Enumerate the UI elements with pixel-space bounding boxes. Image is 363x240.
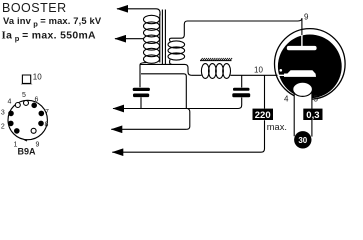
- pin 5 (open): [24, 100, 29, 105]
- tube V1 cathode (white mesa shape): [284, 70, 316, 77]
- svg-text:7: 7: [45, 109, 49, 116]
- svg-text:4: 4: [284, 95, 289, 104]
- choke L2 core (hatched bar): [200, 58, 232, 61]
- pin 7 (filled): [39, 111, 45, 117]
- wire: ground rail y=108.5, arrow left: [113, 98, 242, 109]
- wire: jog from rail down to lower rail: [187, 109, 190, 130]
- wire: secondary top to tube anode pin 9: [172, 18, 302, 38]
- capacitor C2: [232, 88, 250, 98]
- socket index tick: [24, 140, 27, 142]
- svg-text:2: 2: [1, 124, 5, 131]
- socket B9A outline: [8, 100, 47, 139]
- svg-text:6: 6: [35, 97, 39, 104]
- wire: choke right lead to tube pin 10: [230, 74, 277, 76]
- wire: bus y=73.8: [141, 74, 186, 109]
- tube V1 anode plate: [287, 46, 317, 50]
- svg-text:8: 8: [45, 122, 49, 129]
- svg-text:0,3: 0,3: [306, 110, 319, 121]
- wire: choke left lead: [191, 74, 201, 76]
- choke L2 winding: [201, 64, 230, 79]
- transformer T1 primary winding: [140, 14, 160, 64]
- pin 1 (filled): [14, 128, 20, 134]
- svg-text:9: 9: [304, 13, 309, 22]
- capacitor C1: [133, 88, 150, 97]
- tube V1 pin 10 lead (white on black): [279, 74, 285, 76]
- svg-text:5: 5: [22, 92, 26, 99]
- svg-text:Va inv p = max. 7,5 kV: Va inv p = max. 7,5 kV: [3, 15, 102, 29]
- transformer T1 secondary winding: [168, 38, 185, 64]
- pin 3 (filled): [8, 111, 14, 117]
- svg-text:BOOSTER: BOOSTER: [2, 1, 67, 15]
- svg-text:10: 10: [254, 66, 263, 75]
- svg-text:4: 4: [8, 99, 12, 106]
- wire: heater pin 4 down to 30: [293, 93, 295, 137]
- wire: mains input top, arrow left: [117, 9, 160, 16]
- svg-text:max.: max.: [267, 122, 287, 132]
- socket pins: [8, 100, 44, 133]
- fuse circle 30: [294, 131, 311, 148]
- wire: lower rail y=129.3, arrow left: [111, 128, 186, 130]
- svg-text:10: 10: [33, 73, 42, 82]
- svg-text:3: 3: [1, 110, 5, 117]
- wire: vertical through capacitor C1: [140, 64, 141, 108]
- svg-text:9: 9: [36, 142, 40, 149]
- resistor box 0,3: [303, 109, 322, 121]
- wire: heater pin 5 down through 0,3: [311, 93, 313, 137]
- pin 8 (filled): [38, 121, 44, 127]
- wire: vertical through capacitor C2: [241, 75, 243, 87]
- tube V1 anode lead (white on black): [301, 35, 303, 47]
- resistor box 220: [253, 109, 274, 121]
- transformer T1 core: [162, 10, 165, 65]
- svg-text:220: 220: [255, 110, 271, 121]
- socket pin labels: [1, 92, 49, 149]
- svg-text:Ia p = max. 550mA: Ia p = max. 550mA: [2, 30, 97, 44]
- pin 6 (filled): [31, 103, 37, 109]
- svg-text:5: 5: [314, 95, 319, 104]
- tube V1 envelope: [275, 29, 346, 100]
- wire: pin 9 stub into tube: [301, 18, 303, 35]
- wire: 220 branch upper part: [264, 75, 266, 108]
- tube V1 heater loop: [293, 82, 313, 102]
- tube V1 grid dot: [280, 69, 283, 72]
- svg-text:30: 30: [298, 136, 307, 145]
- svg-text:B9A: B9A: [18, 147, 37, 157]
- wire: primary bottom horizontal bus y=64.4: [140, 64, 191, 75]
- pin 2 (filled): [8, 121, 14, 127]
- pin 4 (open): [15, 103, 20, 108]
- tube V1 black body: [278, 35, 342, 99]
- wire: bottom return y=152.2 to 220 branch, arrow left: [112, 120, 264, 152]
- wire: primary tap, arrow left: [115, 38, 144, 40]
- top cap symbol: [21, 75, 33, 84]
- pin 9 (open): [31, 128, 36, 133]
